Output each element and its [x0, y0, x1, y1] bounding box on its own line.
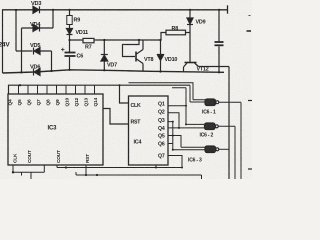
- wire IC3 top pins: [19, 85, 95, 94]
- wire VT12 collector to right bus: [199, 66, 230, 68]
- node IC4 pin label Q6: [158, 142, 165, 148]
- diode VD9: [187, 9, 193, 62]
- gate IC6-2: [205, 123, 236, 179]
- op-amp IC3 box: [8, 94, 103, 165]
- wire gate3 lower input: [172, 149, 205, 151]
- node IC3 pin label Q8: [46, 99, 52, 106]
- wire IC4 Q2 stub to gate2 lower input: [168, 113, 179, 128]
- node IC3 pin label Q10: [65, 98, 71, 107]
- node IC4 pin label Q1: [158, 101, 165, 107]
- wire right vertical bus from VT12: [228, 67, 230, 180]
- resistor R7: [83, 38, 94, 42]
- wire left edge vertical: [2, 10, 4, 73]
- node IC4 pin label Q5: [158, 134, 165, 140]
- resistor R9: [67, 9, 72, 28]
- node right edge stub bottom: [248, 168, 252, 170]
- node IC3 pin label Q14: [93, 98, 99, 107]
- node label VD3: [31, 1, 41, 7]
- diode VD11: [67, 29, 73, 41]
- node label VD6: [30, 65, 40, 71]
- node label VD11: [76, 30, 89, 36]
- wire IC4 Q5 stub to gate3 upper input: [168, 135, 205, 148]
- gate IC6-1: [205, 99, 241, 179]
- node IC3 pin label COUT2 bottom: [56, 150, 62, 163]
- wire IC4 Q6 stub: [168, 143, 173, 145]
- node label IC6-3: [188, 158, 202, 164]
- diode VD6: [34, 69, 41, 76]
- node label VD7: [107, 63, 117, 69]
- wire VD5 branch: [15, 9, 53, 72]
- node label IC4: [134, 140, 142, 146]
- wire IC4 Q3 stub channel vertical: [168, 121, 174, 150]
- node label IC3: [48, 126, 58, 132]
- node IC3 pin label Q13: [84, 98, 90, 107]
- node label R8: [172, 26, 179, 32]
- node label RST: [131, 120, 142, 126]
- resistor R8: [161, 30, 190, 40]
- node label CLK: [131, 103, 142, 109]
- node IC4 pin label Q2: [158, 110, 165, 116]
- node IC3 pin label COUT bottom: [27, 150, 33, 163]
- node IC3 pin label Q4: [8, 99, 14, 106]
- wire IC4 bottom pin: [155, 165, 157, 169]
- wire VD4 branch: [20, 9, 54, 74]
- node label R9: [74, 18, 81, 24]
- wire IC3 top bus: [9, 84, 191, 103]
- node label C6: [77, 54, 84, 60]
- node label VD4: [30, 22, 41, 28]
- wire IC3 bottom pin RST: [76, 165, 202, 179]
- zener VD7: [101, 39, 108, 72]
- wire IC4 Q4 stub gate2 lower line: [168, 127, 205, 129]
- capacitor C9: [215, 9, 224, 74]
- node IC3 pin label CLK bottom: [13, 153, 19, 163]
- wire bottom rail: [3, 70, 225, 73]
- zener VD10: [157, 39, 164, 73]
- node label VD5: [30, 43, 40, 49]
- node IC3 pin label Q12: [74, 98, 80, 107]
- wire IC3 bottom pin COUT: [57, 165, 182, 169]
- node IC4 pin label Q3: [158, 118, 165, 124]
- op-amp IC4 box: [129, 96, 169, 165]
- node right edge stub mid: [248, 100, 252, 102]
- node label IC6-1: [202, 110, 216, 116]
- node top rail right terminal: [227, 5, 229, 13]
- wire R7 row: [68, 39, 161, 41]
- node IC4 pin label Q4: [158, 126, 165, 132]
- capacitor C6: [61, 40, 76, 71]
- wire VT8 base loop: [123, 39, 141, 57]
- node right edge stub top: [247, 16, 252, 32]
- node 24V input label: [0, 42, 10, 49]
- diode VD3: [33, 6, 40, 13]
- wire bottom cut stubs: [22, 172, 32, 179]
- wire IC3 bottom pin 1: [12, 165, 45, 174]
- node IC3 pin label RST bottom: [85, 154, 91, 163]
- wire gate1 lower input from bus: [190, 85, 205, 102]
- node IC3 pin label Q6: [27, 99, 33, 106]
- gate IC6-3: [205, 146, 229, 153]
- wire IC4 Q1 stub to gate2 upper input: [168, 88, 205, 126]
- node label VT8: [144, 57, 153, 63]
- node IC3 pin label Q7: [36, 99, 42, 106]
- node IC3 pin label Q5: [17, 99, 23, 106]
- wire top rail: [2, 9, 228, 11]
- node label IC6-2: [200, 133, 214, 139]
- node IC4 pin label Q7: [158, 154, 165, 160]
- diode VD5: [34, 48, 41, 55]
- node label R7: [85, 45, 92, 51]
- wire gate1 upper input line: [129, 83, 206, 100]
- node label VD9: [196, 20, 206, 26]
- transistor VT8: [136, 40, 143, 71]
- diode VD4: [33, 25, 40, 32]
- node label VD10: [165, 57, 178, 63]
- node IC3 pin label Q9: [55, 99, 61, 106]
- node label VT12: [197, 67, 209, 73]
- transistor VT12: [184, 63, 199, 73]
- wire IC3 RST feeder to IC4: [103, 109, 129, 125]
- paper noise overlay: [0, 0, 252, 179]
- wire IC4 Q7 stub: [168, 156, 183, 169]
